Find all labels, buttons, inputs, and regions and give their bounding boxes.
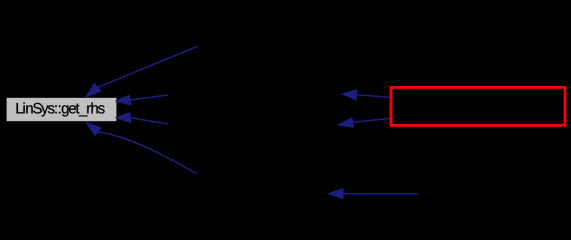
wire edge3 short arrow into right edge of grey node (lower) xyxy=(116,112,168,124)
wire edge6 arrow from red box to middle caller (lower) xyxy=(338,118,389,128)
node LinSys::get_rhs (grey central node) xyxy=(7,98,117,121)
label LinSys::get_rhs xyxy=(17,102,105,116)
wire edge2 short arrow into right edge of grey node (upper) xyxy=(116,95,168,105)
wire edge1 long arrow from top-right caller to LinSys::get_rhs xyxy=(86,47,197,97)
wire edge5 arrow from red box to middle caller (upper) xyxy=(342,90,390,100)
wire edge4 curved arrow from bottom caller to grey node bottom xyxy=(86,123,197,175)
wire edge7 bottom horizontal arrow xyxy=(328,189,418,199)
node red-bordered box (truncated caller) xyxy=(391,87,565,125)
